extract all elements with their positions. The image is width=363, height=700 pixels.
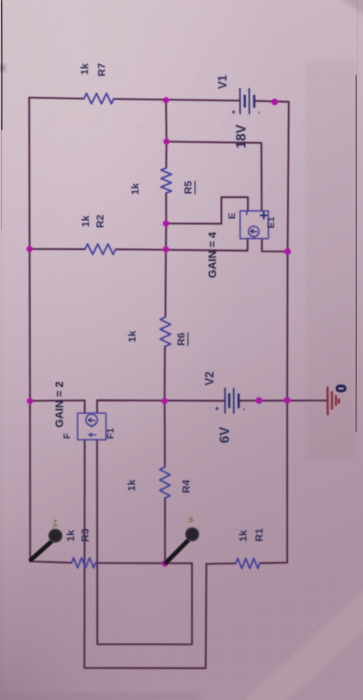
svg-text:1k: 1k: [238, 530, 250, 542]
wire top rail right of V1 to corner: [255, 100, 289, 103]
battery V2: [225, 388, 239, 413]
wire mid rail: V2 right to ground: [240, 400, 327, 402]
svg-text:18V: 18V: [234, 124, 249, 148]
wire center column x=166: [165, 100, 167, 563]
wire left edge vertical: [29, 98, 30, 562]
svg-text:F: F: [62, 433, 73, 439]
svg-text:R3: R3: [80, 528, 92, 542]
top-right corner shade: [330, 0, 363, 22]
resistor R6 zigzag: [160, 317, 170, 346]
battery V1: [240, 89, 254, 114]
wire R1 rail to right corner: [206, 563, 287, 564]
svg-text:V1: V1: [218, 74, 230, 89]
svg-text:1k: 1k: [126, 479, 138, 491]
ground 0: [328, 387, 339, 414]
probe V-: [166, 528, 199, 563]
resistor R7 zigzag: [84, 93, 114, 103]
svg-text:V-: V-: [189, 515, 196, 522]
svg-text:R5: R5: [183, 181, 195, 195]
wire E1 out+ branch: [167, 142, 262, 211]
svg-text:1k: 1k: [127, 331, 139, 343]
svg-text:1k: 1k: [80, 215, 92, 227]
wire R2 rail / E1 control minus: [30, 239, 248, 251]
vcvs E1: [240, 211, 268, 239]
svg-text:1k: 1k: [130, 183, 142, 195]
svg-text:GAIN = 2: GAIN = 2: [54, 381, 66, 427]
svg-text:V2: V2: [205, 371, 217, 385]
svg-text:1k: 1k: [65, 530, 77, 542]
svg-text:V+: V+: [52, 519, 59, 528]
resistor R4 zigzag: [164, 431, 166, 433]
cccs F1: [78, 413, 106, 440]
bottom dark band: [0, 694, 200, 700]
bottom-right light streak: [255, 600, 363, 700]
wire mid rail: F1 in-right to V2: [97, 400, 225, 413]
resistor R5 zigzag: [161, 168, 171, 193]
wire outer loop: F1 out-left down, across, up to R1 rail: [84, 440, 206, 669]
resistor R3 zigzag: [72, 558, 96, 568]
svg-text:R4: R4: [181, 480, 193, 494]
probe V+: [31, 529, 62, 560]
svg-text:+: +: [229, 109, 238, 114]
svg-text:+: +: [213, 406, 222, 411]
svg-text:R1: R1: [254, 528, 266, 542]
svg-text:R2: R2: [95, 214, 107, 228]
svg-text:E: E: [227, 213, 238, 219]
wire top rail: left corner to V1 left, with R7 gap: [29, 98, 239, 101]
svg-text:GAIN = 4: GAIN = 4: [207, 231, 219, 278]
screen bezel edge top-left: [1, 0, 4, 130]
wire inner loop: F1 out-right down, across, up: [97, 440, 192, 645]
svg-text:R6: R6: [175, 332, 187, 346]
svg-text:1k: 1k: [79, 63, 91, 75]
resistor R2 zigzag: [85, 244, 116, 254]
svg-text:E1: E1: [266, 216, 277, 228]
svg-text:R7: R7: [96, 63, 108, 77]
svg-text:F1: F1: [106, 427, 117, 439]
screen bezel edge right: [355, 75, 358, 432]
wire E1 control branch: [166, 197, 248, 224]
svg-text:6V: 6V: [217, 427, 232, 444]
wire E1 out- to right edge: [262, 239, 288, 252]
wire mid rail y=400: left edge to F1 in-left: [30, 400, 85, 413]
wire bottom-left horizontal through R3: [30, 561, 192, 563]
resistor R1 zigzag: [236, 558, 260, 568]
wire right edge vertical: [287, 102, 289, 563]
